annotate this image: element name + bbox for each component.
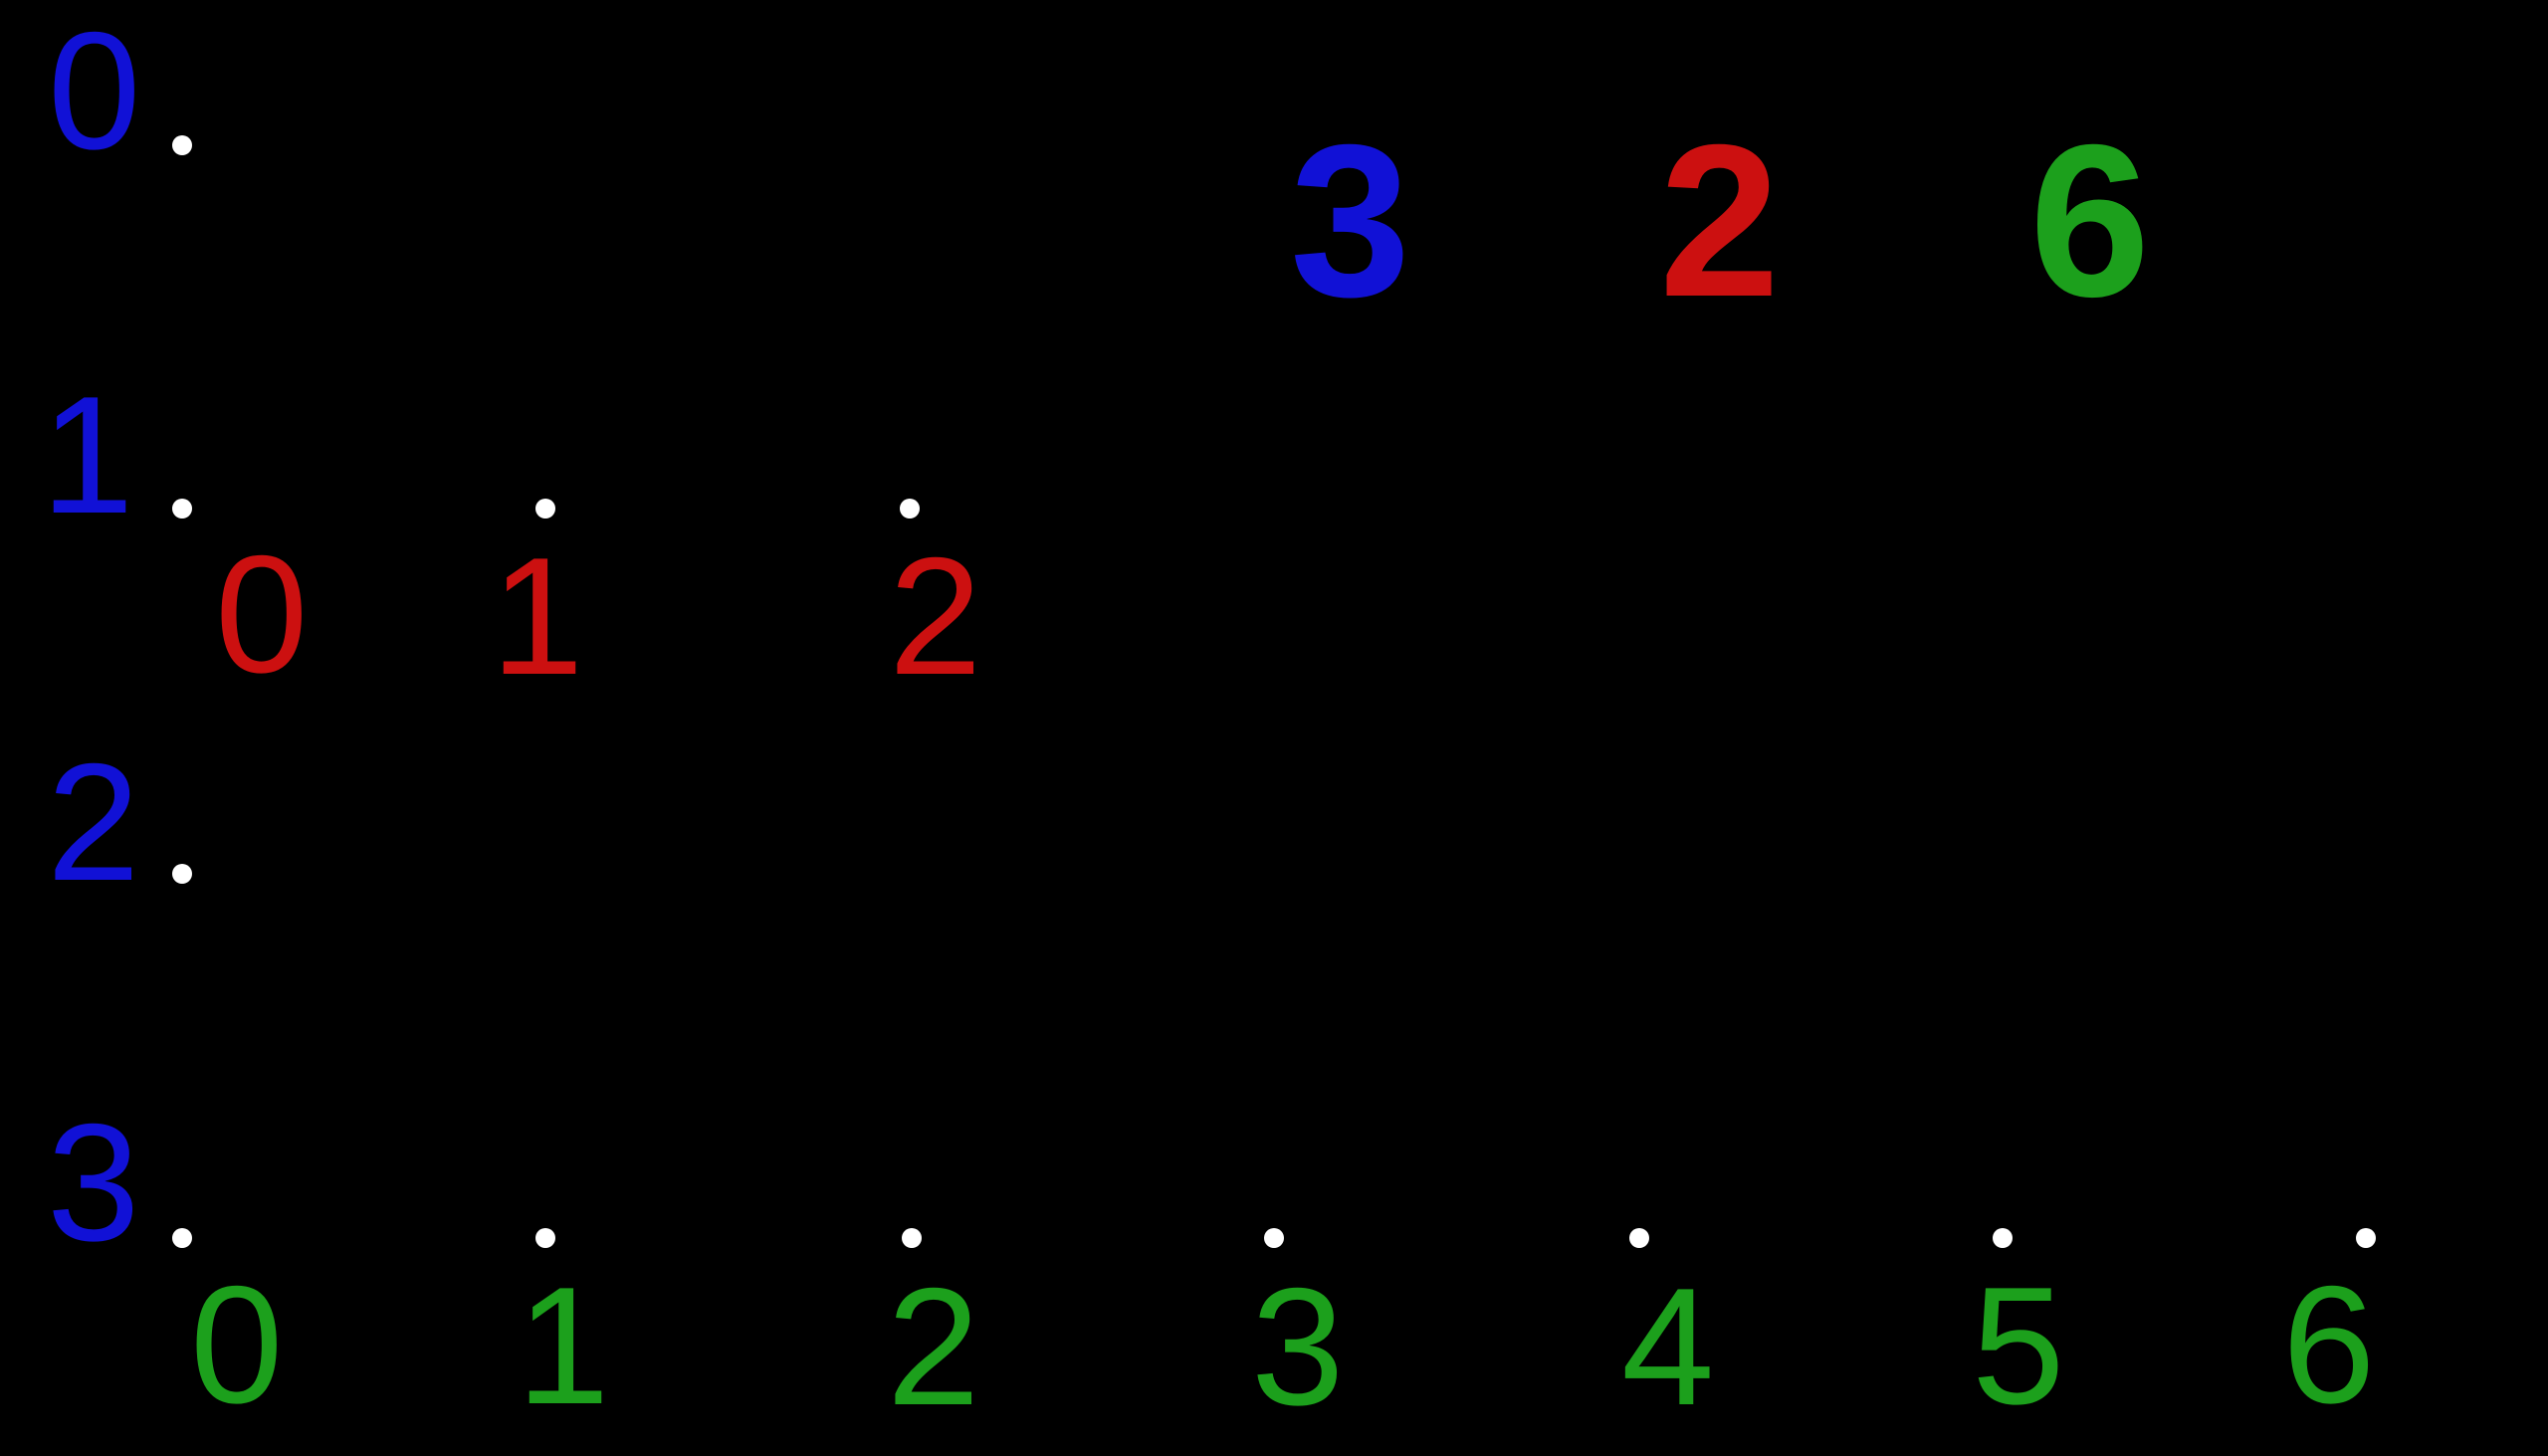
- node dot level 3 #0: [172, 1228, 192, 1248]
- level label 0 (blue): [48, 90, 140, 92]
- leaf index 5 (green): [1972, 1345, 2064, 1347]
- big digit 2 (red): [1659, 221, 1780, 223]
- big digit 6 (green): [2029, 221, 2150, 223]
- leaf index 4 (green): [1621, 1346, 1714, 1348]
- node dot level 3 #6: [2356, 1228, 2376, 1248]
- node dot level 3 #1: [535, 1228, 555, 1248]
- node dot level 3 #5: [1993, 1228, 2013, 1248]
- node dot level 1 #2: [900, 499, 920, 519]
- leaf index 6 (green): [2282, 1344, 2375, 1346]
- leaf index 3 (green): [1251, 1346, 1344, 1348]
- node dot level 0: [172, 135, 192, 155]
- child index 1 (red): [491, 615, 583, 617]
- node dot level 2: [172, 864, 192, 884]
- node dot level 1 #0: [172, 499, 192, 519]
- leaf index 1 (green): [517, 1345, 609, 1347]
- node dot level 3 #4: [1629, 1228, 1649, 1248]
- big digit 3 (blue): [1290, 221, 1410, 223]
- leaf index 0 (green): [190, 1344, 283, 1346]
- level label 2 (blue): [47, 821, 139, 823]
- child index 0 (red): [215, 613, 308, 615]
- child index 2 (red): [889, 615, 981, 617]
- level label 3 (blue): [47, 1181, 139, 1183]
- node dot level 3 #2: [902, 1228, 922, 1248]
- node dot level 1 #1: [535, 499, 555, 519]
- leaf index 2 (green): [887, 1346, 979, 1348]
- level label 1 (blue): [41, 454, 133, 456]
- node dot level 3 #3: [1264, 1228, 1284, 1248]
